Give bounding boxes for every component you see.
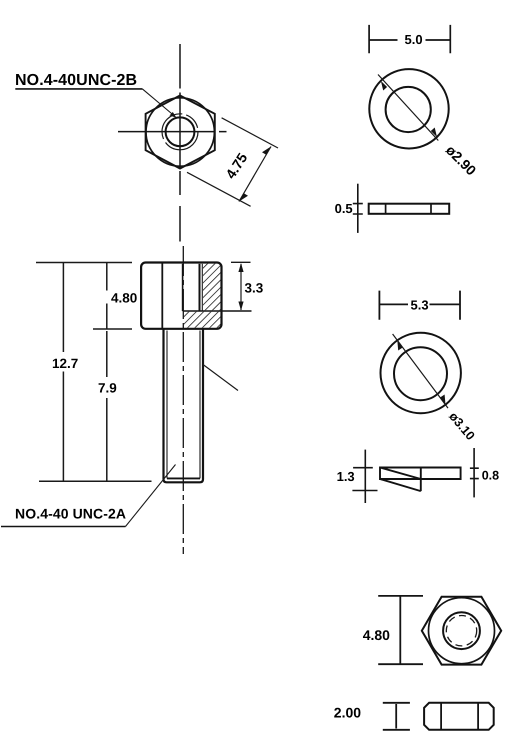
diameter line <box>393 334 448 408</box>
chamfer circle <box>146 98 214 166</box>
split washer profile <box>380 468 461 492</box>
chamfer circle <box>429 598 495 664</box>
thread major circle <box>162 114 198 150</box>
centerline <box>182 246 184 554</box>
hole circle <box>443 612 480 649</box>
svg-text:ø2.90: ø2.90 <box>443 142 480 179</box>
leader to thread <box>142 89 174 116</box>
head outline <box>141 263 221 329</box>
dim 3.3 ext top <box>231 261 251 263</box>
tapped hole right edge <box>199 264 201 311</box>
svg-text:NO.4-40UNC-2B: NO.4-40UNC-2B <box>15 72 137 89</box>
label underline <box>1 526 126 528</box>
facet line right <box>477 703 479 730</box>
svg-text:ø3.10: ø3.10 <box>446 409 477 443</box>
vertical centerline <box>179 44 181 242</box>
dim 4.80 ticks <box>378 596 423 664</box>
hole edge right <box>430 204 432 214</box>
dim 2.00 line <box>395 704 397 729</box>
stud outline <box>164 330 204 483</box>
section hatch bottom <box>184 312 221 328</box>
leader to stud thread <box>126 465 176 527</box>
dim 5.3 ticks <box>379 291 460 320</box>
dim line 12.7 <box>62 263 64 482</box>
dim 2.00 ticks <box>383 703 410 730</box>
tapped hole left edge <box>182 264 184 311</box>
dim 0.8 ticks <box>470 468 479 478</box>
dim 4.75 line <box>239 147 271 202</box>
svg-text:7.9: 7.9 <box>98 381 117 396</box>
dim 3.3 line <box>240 264 242 310</box>
hole bottom line <box>183 310 252 312</box>
svg-text:4.75: 4.75 <box>222 150 250 182</box>
svg-text:2.00: 2.00 <box>334 705 361 721</box>
hex body outline <box>146 96 215 169</box>
dim 0.8 line <box>473 448 475 497</box>
svg-text:NO.4-40 UNC-2A: NO.4-40 UNC-2A <box>15 506 126 522</box>
svg-text:4.80: 4.80 <box>363 627 390 643</box>
outer circle <box>369 69 448 148</box>
section hatch right <box>203 264 221 311</box>
dim 0.5 ticks <box>353 204 363 214</box>
dim ext top <box>36 262 132 264</box>
washer rect <box>369 204 450 214</box>
facet line left <box>440 703 442 730</box>
inner circle <box>386 87 431 132</box>
svg-text:3.3: 3.3 <box>245 281 264 296</box>
svg-text:1.3: 1.3 <box>337 469 355 484</box>
thread end chamfer line <box>167 477 200 479</box>
inner circle <box>394 347 447 400</box>
hole edge left <box>385 204 387 214</box>
thread dashed circle <box>446 616 476 646</box>
tap hole circle <box>166 117 195 146</box>
dim 1.3 ticks <box>352 468 377 491</box>
diameter line <box>378 75 438 141</box>
dim 4.75 extension line A <box>222 118 278 148</box>
dim line 4.80 <box>106 263 108 330</box>
dim 4.75 extension line B <box>187 172 251 206</box>
leader on stud <box>203 365 238 391</box>
dim 1.3 line <box>364 450 366 503</box>
dim ext stud bottom <box>39 480 152 482</box>
dim 5.3 line <box>380 303 460 305</box>
dim ext head bottom <box>93 328 132 330</box>
head facet line <box>161 263 163 328</box>
dim 5.0 ticks <box>369 25 450 53</box>
thread major line <box>201 264 203 311</box>
nut profile <box>424 703 494 730</box>
thread minor line left <box>166 331 168 479</box>
dim 5.0 line <box>370 39 451 41</box>
svg-text:12.7: 12.7 <box>52 356 78 371</box>
dim 0.5 line <box>357 184 359 233</box>
svg-text:5.3: 5.3 <box>411 298 429 313</box>
dim 4.80 line <box>399 596 401 664</box>
dim line 7.9 <box>106 331 108 481</box>
svg-text:5.0: 5.0 <box>405 32 423 47</box>
label underline <box>15 88 142 90</box>
thread minor line right <box>199 331 201 479</box>
horizontal centerline <box>118 131 227 133</box>
svg-text:0.8: 0.8 <box>482 469 499 483</box>
hex outline <box>422 597 501 665</box>
outer circle <box>381 333 461 413</box>
svg-text:4.80: 4.80 <box>111 291 137 306</box>
svg-text:0.5: 0.5 <box>335 201 353 216</box>
